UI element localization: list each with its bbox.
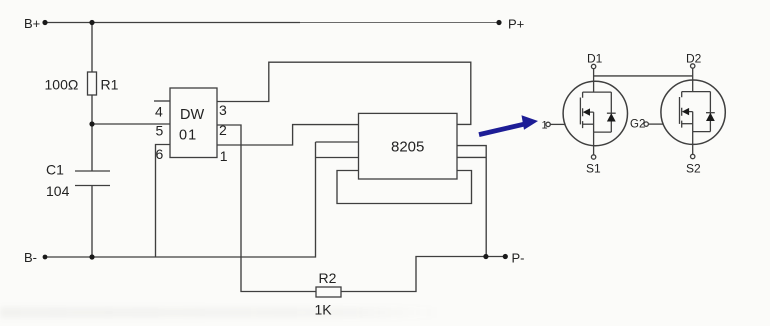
svg-text:R2: R2 xyxy=(319,270,337,286)
svg-text:100Ω: 100Ω xyxy=(45,77,79,93)
svg-text:6: 6 xyxy=(156,146,164,162)
svg-text:1: 1 xyxy=(542,120,548,132)
svg-text:DW: DW xyxy=(180,107,204,123)
svg-text:P+: P+ xyxy=(508,17,524,32)
svg-text:8205: 8205 xyxy=(391,139,424,156)
svg-text:P-: P- xyxy=(512,251,525,266)
svg-text:104: 104 xyxy=(46,183,70,199)
svg-text:5: 5 xyxy=(156,123,164,139)
svg-text:01: 01 xyxy=(179,128,197,144)
svg-text:B-: B- xyxy=(24,250,37,265)
svg-text:S1: S1 xyxy=(586,162,601,176)
svg-text:1K: 1K xyxy=(315,302,333,318)
svg-text:D2: D2 xyxy=(686,52,702,66)
svg-text:G2: G2 xyxy=(630,119,645,131)
svg-text:D1: D1 xyxy=(587,52,603,66)
svg-text:R1: R1 xyxy=(101,77,119,93)
svg-text:2: 2 xyxy=(219,122,227,138)
svg-text:C1: C1 xyxy=(46,162,64,178)
svg-text:3: 3 xyxy=(219,102,227,118)
svg-text:S2: S2 xyxy=(686,162,701,176)
svg-text:B+: B+ xyxy=(24,16,40,31)
svg-text:4: 4 xyxy=(155,104,163,120)
svg-text:1: 1 xyxy=(220,148,228,164)
